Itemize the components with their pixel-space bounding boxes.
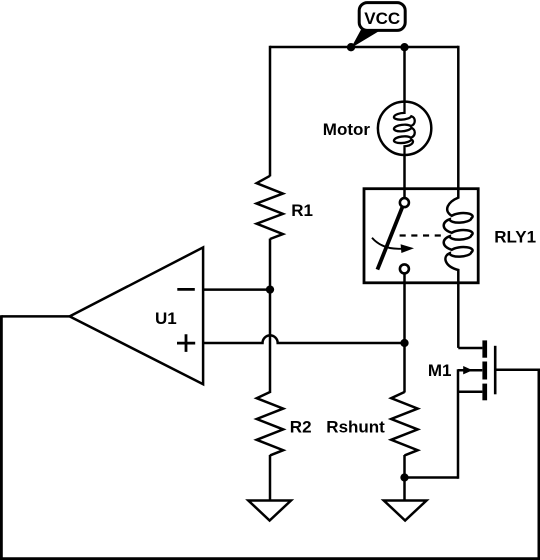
power symbol VCC box bbox=[359, 3, 405, 31]
svg-text:Motor: Motor bbox=[323, 120, 371, 139]
wire: relay coil down to M1 drain bbox=[457, 282, 460, 348]
node: inverting input junction dot bbox=[266, 285, 274, 293]
op-amp minus symbol bbox=[177, 288, 195, 291]
svg-text:VCC: VCC bbox=[364, 9, 400, 28]
ground under Rshunt bbox=[384, 501, 427, 521]
wire: M1 body/source down bbox=[457, 369, 460, 479]
resistor R1 bbox=[257, 176, 283, 239]
node: VCC tap junction dot bbox=[347, 43, 355, 51]
M1 body channel bar bbox=[482, 362, 487, 380]
wire: Rshunt bottom to ground bbox=[403, 455, 406, 501]
wire: M1 source to Rshunt bottom bbox=[405, 476, 459, 479]
wire: rail down to R1 bbox=[269, 46, 272, 177]
wire: top VCC rail bbox=[270, 46, 458, 49]
M1 source lead bbox=[458, 390, 482, 393]
relay switch arm bbox=[377, 207, 402, 270]
M1 gate electrode bbox=[494, 346, 497, 395]
M1 body arrow lead bbox=[458, 369, 482, 372]
resistor R2 bbox=[257, 392, 284, 455]
motor M: circle bbox=[378, 102, 431, 155]
wire: op-amp output to left bbox=[1, 315, 69, 318]
node: + input / Rshunt junction dot bbox=[400, 339, 408, 347]
wire: feedback to M1 gate bbox=[496, 369, 540, 372]
svg-text:Rshunt: Rshunt bbox=[326, 417, 385, 436]
resistor Rshunt bbox=[391, 392, 418, 455]
relay switch bottom terminal bbox=[400, 264, 409, 273]
wire: left vertical feedback bbox=[0, 315, 3, 558]
svg-text:U1: U1 bbox=[155, 309, 177, 328]
wire: relay common down to + node bbox=[403, 273, 406, 343]
ground under R2 bbox=[248, 501, 291, 521]
power flag VCC pointer bbox=[351, 30, 382, 48]
svg-text:M1: M1 bbox=[428, 361, 452, 380]
wire: right vertical feedback bbox=[538, 370, 540, 560]
motor coil winding bbox=[394, 102, 415, 156]
svg-text:R2: R2 bbox=[290, 417, 312, 436]
M1 source channel bar bbox=[482, 384, 487, 401]
wire: non-inverting input with hop over R1/R2 wire bbox=[203, 335, 405, 343]
op-amp plus symbol bbox=[177, 334, 195, 352]
node: rail/motor junction dot bbox=[400, 43, 408, 51]
node: Rshunt/M1 source junction dot bbox=[400, 473, 408, 481]
transistor M1 drain lead bbox=[458, 347, 482, 350]
M1 drain channel bar bbox=[482, 340, 487, 357]
relay RLY1 box bbox=[364, 189, 478, 283]
wire: + node down to Rshunt top bbox=[403, 343, 406, 393]
relay motion arrow bbox=[372, 238, 402, 249]
M1 body arrowhead bbox=[463, 366, 472, 374]
wire: inverting input bbox=[203, 288, 270, 291]
wire: bottom feedback rail bbox=[0, 557, 539, 560]
op-amp U1 bbox=[70, 247, 204, 384]
wire: R1 bottom to R2 top bbox=[269, 239, 272, 393]
relay coil bbox=[444, 187, 473, 283]
wire: rail down to relay coil bbox=[457, 46, 460, 189]
svg-text:RLY1: RLY1 bbox=[494, 227, 536, 246]
wire: motor to relay switch bbox=[403, 154, 406, 199]
wire: rail down to motor bbox=[403, 47, 406, 102]
relay switch top terminal bbox=[400, 198, 409, 207]
wire: R2 to ground bbox=[269, 455, 272, 501]
svg-text:R1: R1 bbox=[291, 201, 313, 220]
relay actuation dashed link bbox=[400, 234, 442, 236]
